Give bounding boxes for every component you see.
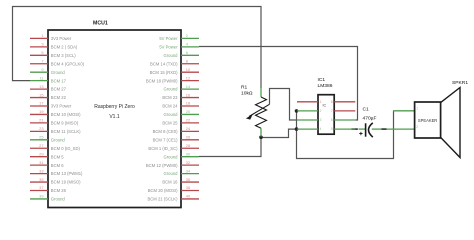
svg-text:Ground: Ground [164, 87, 179, 92]
svg-text:470µF: 470µF [363, 115, 377, 121]
svg-text:BCM 20 (MOSI): BCM 20 (MOSI) [148, 188, 178, 193]
MCU U1 Raspberry Pi Zero body [48, 30, 181, 208]
MCU pin 14 (Ground) leg [181, 88, 199, 90]
svg-text:38: 38 [186, 185, 190, 190]
svg-text:16: 16 [186, 92, 190, 97]
MCU pin 23 (BCM 11 (SCLK)) leg [30, 130, 48, 132]
MCU pin 34 (Ground) leg [181, 173, 199, 175]
wire: IC1 pin 2 to pin 4 (node column) [296, 111, 298, 129]
svg-text:BCM 14 (TXD): BCM 14 (TXD) [150, 61, 178, 66]
svg-text:BCM 26: BCM 26 [51, 188, 67, 193]
svg-text:7: 7 [41, 58, 43, 63]
svg-text:26: 26 [186, 135, 190, 140]
MCU pin 27 (BCM 0 (ID_SD)) leg [30, 147, 48, 149]
IC1 pin 4 leg [297, 128, 318, 130]
svg-text:3V3 Power: 3V3 Power [51, 36, 72, 41]
junction node IC1 pin 4 [295, 127, 299, 131]
svg-text:21: 21 [39, 118, 43, 123]
wire: IC1 pin 5 to C1 [352, 128, 358, 130]
svg-text:SPKR1: SPKR1 [452, 80, 468, 86]
MCU pin 38 (BCM 20 (MOSI)) leg [181, 190, 199, 192]
MCU pin 17 (3V3 Power) leg [30, 105, 48, 107]
MCU pin 25 (Ground) leg [30, 139, 48, 141]
svg-text:15: 15 [39, 92, 43, 97]
svg-text:BCM 0 (ID_SD): BCM 0 (ID_SD) [51, 146, 81, 151]
IC1 pin 8 leg [334, 101, 355, 103]
IC1 pin 6 leg [334, 119, 355, 121]
MCU pin 40 (BCM 21 (SCLK)) leg [181, 198, 199, 200]
svg-text:2: 2 [186, 33, 188, 38]
MCU pin 26 (BCM 7 (CE1)) leg [181, 139, 199, 141]
speaker SPKR1 + leg [393, 110, 415, 112]
C1 polarity plus [359, 132, 362, 135]
wire: ground bus to speaker + [297, 111, 394, 159]
svg-text:39: 39 [39, 194, 43, 199]
speaker SPKR1 horn [441, 88, 460, 158]
svg-text:1: 1 [416, 107, 418, 111]
svg-text:BCM 5: BCM 5 [51, 154, 64, 159]
svg-text:33: 33 [39, 168, 43, 173]
wire: 5V (pin 4) to IC1 pin 6 [199, 47, 358, 121]
svg-text:IC: IC [323, 103, 327, 107]
svg-text:13: 13 [39, 84, 43, 89]
svg-text:BCM 24: BCM 24 [162, 104, 178, 109]
capacitor C1 straight plate [365, 123, 367, 136]
svg-text:37: 37 [39, 185, 43, 190]
svg-text:IC1: IC1 [318, 77, 326, 83]
svg-text:BCM 27: BCM 27 [51, 87, 67, 92]
speaker SPKR1 body [415, 102, 441, 138]
svg-text:C1: C1 [363, 106, 370, 112]
svg-text:BCM 3 (SCL): BCM 3 (SCL) [51, 53, 77, 58]
svg-text:1: 1 [41, 33, 43, 38]
MCU pin 31 (BCM 6) leg [30, 164, 48, 166]
svg-text:18: 18 [186, 101, 190, 106]
MCU pin 13 (BCM 27) leg [30, 88, 48, 90]
svg-text:Ground: Ground [164, 154, 179, 159]
MCU pin 24 (BCM 8 (CE0)) leg [181, 130, 199, 132]
svg-text:Ground: Ground [164, 171, 179, 176]
MCU pin 1 (3V3 Power) leg [30, 37, 48, 39]
svg-text:BCM 11 (SCLK): BCM 11 (SCLK) [51, 129, 81, 134]
MCU pin 28 (BCM 1 (ID_SC)) leg [181, 147, 199, 149]
svg-text:BCM 15 (RXD): BCM 15 (RXD) [150, 70, 179, 75]
svg-text:9: 9 [41, 67, 43, 72]
MCU pin 3 (BCM 2 ( SDA)) leg [30, 46, 48, 48]
svg-text:Raspberry Pi Zero: Raspberry Pi Zero [94, 104, 135, 110]
svg-text:BCM 22: BCM 22 [51, 95, 67, 100]
svg-text:25: 25 [39, 135, 43, 140]
MCU pin 6 (Ground) leg [181, 54, 199, 56]
svg-text:5V Power: 5V Power [159, 36, 178, 41]
capacitor C1 curved plate [369, 123, 373, 137]
svg-text:BCM 18 (PWM0): BCM 18 (PWM0) [146, 78, 178, 83]
MCU pin 32 (BCM 12 (PWM0)) leg [181, 164, 199, 166]
svg-text:BCM 2 ( SDA): BCM 2 ( SDA) [51, 44, 78, 49]
MCU pin 18 (BCM 24) leg [181, 105, 199, 107]
svg-text:5V Power: 5V Power [159, 44, 178, 49]
svg-text:SPEAKER: SPEAKER [418, 118, 437, 123]
svg-text:BCM 9 (MISO): BCM 9 (MISO) [51, 121, 79, 126]
svg-text:BCM 6: BCM 6 [51, 163, 64, 168]
svg-text:BCM 19 (MISO): BCM 19 (MISO) [51, 180, 81, 185]
svg-text:36: 36 [186, 177, 190, 182]
svg-text:6: 6 [331, 118, 333, 122]
wire: BCM 17 (pin 11) to potentiometer top, around left+top [13, 7, 262, 89]
svg-text:31: 31 [39, 160, 43, 165]
IC1 pin 2 leg [297, 110, 318, 112]
MCU pin 36 (BCM 16) leg [181, 181, 199, 183]
resistor R1 zigzag body [256, 97, 267, 128]
svg-text:Ground: Ground [51, 137, 66, 142]
svg-text:R1: R1 [241, 84, 248, 90]
MCU pin 22 (BCM 25) leg [181, 122, 199, 124]
wire: pot wiper to IC1 pin 3 [270, 89, 298, 121]
capacitor C1 right leg [372, 128, 382, 130]
svg-text:Ground: Ground [51, 70, 66, 75]
resistor R1 10k pot: top leg [260, 88, 262, 97]
resistor R1 bottom leg [260, 128, 262, 136]
MCU pin 4 (5V Power) leg [181, 46, 199, 48]
svg-text:BCM 12 (PWM0): BCM 12 (PWM0) [146, 163, 178, 168]
MCU pin 21 (BCM 9 (MISO)) leg [30, 122, 48, 124]
svg-text:3V3 Power: 3V3 Power [51, 104, 72, 109]
svg-text:BCM 21 (SCLK): BCM 21 (SCLK) [147, 197, 178, 202]
svg-text:12: 12 [186, 75, 190, 80]
MCU pin 35 (BCM 19 (MISO)) leg [30, 181, 48, 183]
svg-text:27: 27 [39, 143, 43, 148]
svg-text:11: 11 [39, 75, 43, 80]
svg-text:23: 23 [39, 126, 43, 131]
wire: pot bottom to IC1 pin 4 node [261, 129, 297, 137]
svg-text:7: 7 [331, 109, 333, 113]
svg-text:5: 5 [331, 127, 333, 131]
svg-text:3: 3 [41, 42, 43, 47]
svg-text:2: 2 [416, 125, 418, 129]
svg-text:22: 22 [186, 118, 190, 123]
svg-text:32: 32 [186, 160, 190, 165]
IC1 pin 5 leg [334, 128, 355, 130]
svg-text:BCM 16: BCM 16 [162, 180, 178, 185]
MCU pin 37 (BCM 26) leg [30, 190, 48, 192]
svg-text:3: 3 [320, 118, 322, 122]
IC1 pin 1 leg [297, 101, 318, 103]
svg-text:29: 29 [39, 151, 43, 156]
MCU pin 39 (Ground) leg [30, 198, 48, 200]
svg-text:35: 35 [39, 177, 43, 182]
MCU pin 33 (BCM 13 (PWM1)) leg [30, 173, 48, 175]
svg-text:BCM 17: BCM 17 [51, 78, 67, 83]
capacitor C1 left leg [359, 128, 366, 130]
svg-text:BCM 4 (GPCLK0): BCM 4 (GPCLK0) [51, 61, 85, 66]
op-amp U IC1 LM386 body [318, 95, 334, 135]
svg-text:8: 8 [331, 100, 333, 104]
svg-text:2: 2 [320, 109, 322, 113]
svg-text:Ground: Ground [51, 197, 66, 202]
svg-text:1: 1 [320, 100, 322, 104]
svg-text:4: 4 [320, 127, 322, 131]
MCU pin 10 (BCM 15 (RXD)) leg [181, 71, 199, 73]
R1 wiper arrow [249, 104, 270, 116]
svg-text:BCM 25: BCM 25 [162, 121, 178, 126]
MCU pin 19 (BCM 10 (MOSI)) leg [30, 113, 48, 115]
svg-text:Ground: Ground [164, 53, 179, 58]
junction node IC1 pin 2 [295, 109, 299, 113]
svg-text:BCM 8 (CE0): BCM 8 (CE0) [153, 129, 179, 134]
MCU pin 20 (Ground) leg [181, 113, 199, 115]
svg-text:BCM 1 (ID_SC): BCM 1 (ID_SC) [148, 146, 178, 151]
junction node at pot bottom [259, 135, 263, 139]
MCU pin 15 (BCM 22) leg [30, 97, 48, 99]
IC1 pin 3 leg [297, 119, 318, 121]
svg-text:BCM 7 (CE1): BCM 7 (CE1) [153, 137, 179, 142]
MCU pin 8 (BCM 14 (TXD)) leg [181, 63, 199, 65]
svg-text:17: 17 [39, 101, 43, 106]
MCU pin 9 (Ground) leg [30, 71, 48, 73]
wire: C1 to speaker - [382, 128, 387, 130]
MCU pin 12 (BCM 18 (PWM0)) leg [181, 80, 199, 82]
svg-text:MCU1: MCU1 [93, 21, 108, 27]
IC1 pin 7 leg [334, 110, 355, 112]
MCU pin 7 (BCM 4 (GPCLK0)) leg [30, 63, 48, 65]
MCU pin 5 (BCM 3 (SCL)) leg [30, 54, 48, 56]
svg-text:BCM 23: BCM 23 [162, 95, 178, 100]
MCU pin 2 (5V Power) leg [181, 37, 199, 39]
svg-text:5: 5 [41, 50, 43, 55]
svg-text:V1.1: V1.1 [109, 114, 120, 120]
MCU pin 29 (BCM 5) leg [30, 156, 48, 158]
MCU pin 16 (BCM 23) leg [181, 97, 199, 99]
svg-text:BCM 10 (MOSI): BCM 10 (MOSI) [51, 112, 81, 117]
MCU pin 11 (BCM 17) leg [30, 80, 48, 82]
svg-text:19: 19 [39, 109, 43, 114]
svg-text:6: 6 [186, 50, 188, 55]
svg-text:BCM 13 (PWM1): BCM 13 (PWM1) [51, 171, 83, 176]
svg-text:LM386: LM386 [318, 83, 333, 89]
wire: Ground (pin 30) to potentiometer bottom [199, 137, 261, 157]
svg-text:8: 8 [186, 58, 188, 63]
svg-text:10kΩ: 10kΩ [241, 91, 253, 97]
svg-text:Ground: Ground [164, 112, 179, 117]
MCU pin 30 (Ground) leg [181, 156, 199, 158]
speaker SPKR1 - leg [387, 128, 415, 130]
svg-text:28: 28 [186, 143, 190, 148]
